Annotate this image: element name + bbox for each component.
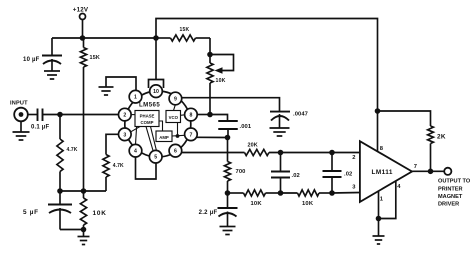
potentiometer 10K	[207, 55, 234, 85]
svg-text:3: 3	[123, 132, 126, 138]
svg-text:20K: 20K	[248, 143, 258, 149]
wire pin6 reference line	[181, 152, 244, 154]
svg-text:0.1 µF: 0.1 µF	[31, 124, 49, 130]
wire pot to pin8 node	[209, 83, 211, 115]
wire input to pin 2	[43, 114, 119, 116]
LM565 pin 4	[129, 144, 142, 157]
svg-text:AMP: AMP	[159, 135, 169, 140]
node bias A	[57, 188, 63, 194]
svg-text:7: 7	[414, 164, 417, 170]
LM565 pin 10	[150, 85, 163, 98]
node pin8	[207, 112, 213, 118]
node pot top	[207, 52, 213, 58]
resistor 15K horizontal	[156, 27, 210, 41]
ground bias	[78, 230, 90, 245]
svg-text:2: 2	[123, 113, 126, 119]
svg-text:OUTPUT TO: OUTPUT TO	[438, 178, 471, 184]
node bias gnd	[81, 227, 87, 233]
ground input	[13, 121, 30, 140]
svg-text:10: 10	[153, 89, 159, 95]
resistor 4.7K input	[57, 115, 78, 192]
wire bias rail	[60, 190, 106, 192]
LM565 phase comparator block	[135, 111, 159, 127]
svg-text:4.7K: 4.7K	[113, 163, 124, 169]
node B 700 bottom	[225, 190, 231, 196]
resistor 10K ladder 1	[228, 190, 281, 207]
svg-text:15K: 15K	[180, 27, 190, 33]
node ladder top 1	[278, 150, 284, 156]
wire pin8 node	[197, 114, 210, 116]
LM565 pin 7	[185, 128, 198, 141]
svg-text:6: 6	[174, 149, 177, 155]
output terminal	[444, 168, 451, 175]
svg-text:10K: 10K	[93, 210, 107, 217]
capacitor .001	[210, 115, 252, 138]
svg-text:2.2 µF: 2.2 µF	[199, 210, 218, 216]
wire top supply rail	[156, 19, 378, 152]
svg-text:.0047: .0047	[293, 112, 308, 118]
LM565 pin 9	[169, 92, 182, 105]
ground LM565 pin 1	[99, 77, 137, 95]
wire pin9 to cap	[182, 98, 280, 112]
svg-text:MAGNET: MAGNET	[438, 194, 463, 200]
wire LM111 output	[412, 170, 444, 172]
output label	[438, 178, 471, 207]
svg-text:5: 5	[154, 155, 157, 161]
resistor 700	[224, 138, 245, 194]
svg-text:2: 2	[352, 155, 355, 161]
svg-text:10 µF: 10 µF	[23, 57, 40, 63]
LM565 amp block	[156, 131, 172, 142]
svg-text:9: 9	[174, 97, 177, 103]
capacitor 0.1 uF	[31, 109, 49, 131]
svg-text:15K: 15K	[90, 55, 101, 61]
node supply B	[153, 35, 159, 41]
svg-text:+12V: +12V	[73, 6, 89, 13]
resistor 2K	[378, 111, 446, 171]
svg-text:700: 700	[236, 169, 246, 175]
node A pin7	[225, 135, 231, 141]
svg-text:PHASE: PHASE	[140, 114, 155, 119]
svg-text:10K: 10K	[302, 201, 314, 207]
ground 10uF	[44, 71, 60, 79]
resistor 20K	[245, 143, 270, 156]
LM111 pin labels	[352, 146, 417, 203]
svg-text:.001: .001	[240, 124, 252, 130]
wire supply to pin 10 tab	[149, 38, 164, 88]
node ladder bot 2	[329, 190, 335, 196]
resistor 4.7K pin3	[103, 134, 124, 191]
LM565 VCO block	[166, 111, 181, 123]
svg-text:DRIVER: DRIVER	[438, 202, 459, 208]
power terminal +12V	[73, 6, 89, 38]
svg-text:VCO: VCO	[169, 115, 179, 120]
LM565 internal wires	[131, 105, 185, 151]
capacitor 5 uF	[23, 191, 84, 230]
svg-text:LM111: LM111	[372, 169, 393, 176]
svg-text:4.7K: 4.7K	[67, 147, 78, 153]
ground LM111	[373, 219, 385, 245]
op-amp U1 LM565 PLL body	[125, 91, 191, 157]
node input bias	[57, 112, 63, 118]
LM565 pin 6	[169, 144, 182, 157]
resistor 10K ladder 2	[281, 190, 333, 207]
resistor 10K bias	[80, 191, 106, 230]
node LM111 gnd	[376, 216, 382, 222]
LM565 label	[139, 101, 160, 108]
LM565 pin 5	[149, 150, 162, 163]
wire LM111 pins 1,4 gnd	[379, 181, 396, 219]
svg-text:10K: 10K	[216, 78, 226, 84]
wire +12V rail	[52, 37, 156, 39]
LM565 pin 2	[119, 108, 132, 121]
resistor 15K vertical	[80, 38, 100, 67]
svg-text:.02: .02	[292, 173, 300, 179]
svg-text:PRINTER: PRINTER	[438, 186, 463, 192]
wire 15K to pot	[209, 38, 211, 63]
capacitor .02 first	[271, 153, 300, 194]
wire 20K to LM111 pin2	[269, 152, 360, 154]
wire pin7 to node A	[196, 136, 227, 138]
svg-text:.02: .02	[344, 171, 352, 177]
capacitor 2.2 uF	[199, 193, 238, 227]
node supply A	[80, 35, 86, 41]
ground .0047	[270, 128, 290, 136]
LM565 pin 1	[129, 90, 142, 103]
wire 15K to bias node	[83, 67, 85, 191]
LM565 pins 4-5 tie	[136, 157, 157, 179]
capacitor .02 second	[323, 153, 353, 194]
svg-text:COMP: COMP	[141, 120, 154, 125]
svg-text:INPUT: INPUT	[10, 101, 28, 107]
node LM111 supply	[375, 108, 381, 114]
svg-text:7: 7	[189, 132, 192, 138]
wire ladder to LM111 pin3	[332, 192, 360, 195]
svg-text:8: 8	[189, 113, 192, 119]
comparator LM111	[360, 141, 412, 202]
svg-text:10K: 10K	[251, 201, 263, 207]
node output	[428, 169, 434, 175]
input terminal	[10, 101, 35, 122]
LM565 pin 3	[119, 128, 132, 141]
LM565 pin 8	[185, 108, 198, 121]
svg-text:1: 1	[134, 95, 137, 101]
node ladder top 2	[329, 150, 335, 156]
node bias B	[81, 188, 87, 194]
capacitor 10 uF	[23, 38, 62, 71]
svg-text:2K: 2K	[437, 133, 446, 140]
svg-text:4: 4	[134, 149, 137, 155]
ground 2.2uF	[220, 227, 236, 235]
svg-text:LM565: LM565	[139, 101, 160, 108]
svg-text:5 µF: 5 µF	[23, 209, 39, 216]
capacitor .0047	[270, 112, 308, 129]
node ladder bot 1	[278, 190, 284, 196]
